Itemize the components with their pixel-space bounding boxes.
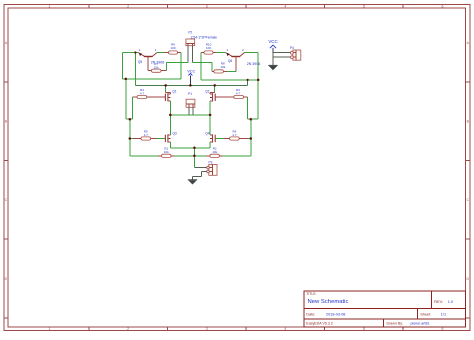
svg-text:3: 3 xyxy=(206,4,208,8)
svg-text:EasyEDA V5.3.2: EasyEDA V5.3.2 xyxy=(306,322,333,326)
resistor R9 xyxy=(165,51,182,54)
wire VCC to ground stub vertical xyxy=(272,53,274,65)
wire R8 to Q6 base xyxy=(227,70,236,72)
wire collector line horizontal left xyxy=(123,78,181,80)
svg-text:4: 4 xyxy=(284,4,286,8)
frame row letters right xyxy=(466,41,469,281)
wire motor node horizontal xyxy=(170,114,210,116)
wire R9 riser down xyxy=(180,53,182,79)
frame tick marks top xyxy=(89,5,403,8)
wire Q5 collector to R9 xyxy=(157,52,165,54)
resistor R7 xyxy=(148,69,167,72)
svg-text:Q2: Q2 xyxy=(205,89,209,93)
wire right lower rail xyxy=(250,119,252,156)
resistor R8 xyxy=(212,70,227,73)
connector P4 xyxy=(291,50,301,60)
svg-text:1/1: 1/1 xyxy=(441,312,446,316)
junction dot bus VCC xyxy=(189,84,192,87)
wire ground drop vertical xyxy=(193,148,195,168)
wire P3 pin2 horizontal xyxy=(202,171,207,173)
frame tick marks right xyxy=(466,82,470,318)
svg-text:4.7: 4.7 xyxy=(232,133,237,137)
svg-text:10k: 10k xyxy=(220,65,225,69)
transistor Q1 MOSFET xyxy=(165,85,170,115)
wire P3 pin2 vertical xyxy=(201,172,203,177)
title block row line 2 xyxy=(304,318,465,320)
wire to P3 pin1 xyxy=(194,167,206,169)
junction dot motor node left xyxy=(169,114,172,117)
svg-text:VCC: VCC xyxy=(187,69,195,74)
frame column numbers bottom xyxy=(49,327,444,331)
junction dot bus Q1 xyxy=(164,84,167,87)
transistor Q5 2N3906 xyxy=(138,53,157,71)
junction dot left rail collector line xyxy=(125,78,128,81)
resistor R1 xyxy=(158,154,174,157)
wire R4 riser xyxy=(132,97,134,119)
resistor R4 xyxy=(133,95,165,98)
svg-text:100: 100 xyxy=(170,46,175,50)
frame column numbers top xyxy=(49,4,444,8)
svg-text:P2: P2 xyxy=(188,31,192,35)
svg-text:Sheet:: Sheet: xyxy=(420,312,431,316)
svg-text:Q1: Q1 xyxy=(172,89,176,93)
svg-text:Q5: Q5 xyxy=(138,60,142,64)
wire VCC bus horizontal xyxy=(135,84,247,86)
svg-text:10k: 10k xyxy=(154,65,159,69)
wire R3 riser xyxy=(246,97,248,119)
svg-text:Date:: Date: xyxy=(306,312,315,316)
svg-text:P3: P3 xyxy=(208,160,212,164)
svg-text:2: 2 xyxy=(127,4,129,8)
wire P2 pin2 xyxy=(191,46,193,63)
wire R10 to Q6 xyxy=(217,52,226,54)
svg-text:3: 3 xyxy=(206,327,208,331)
ground symbol top right xyxy=(268,65,277,70)
power flag VCC center xyxy=(187,69,195,86)
wire source node horizontal xyxy=(170,147,210,149)
title block row line 1 xyxy=(304,307,465,309)
svg-text:4.7: 4.7 xyxy=(140,91,145,95)
svg-text:1: 1 xyxy=(49,4,51,8)
svg-text:100: 100 xyxy=(206,46,211,50)
transistor Q2 MOSFET xyxy=(210,85,215,115)
wire R7 riser xyxy=(166,63,168,71)
transistor Q4 MOSFET xyxy=(210,115,215,148)
svg-text:6: 6 xyxy=(442,4,444,8)
wire left lower rail xyxy=(129,119,131,156)
svg-text:TITLE:: TITLE: xyxy=(306,292,316,296)
svg-text:REV:: REV: xyxy=(434,300,443,304)
wire left jog horizontal xyxy=(126,118,133,120)
junction dot motor node right xyxy=(209,114,212,117)
connector P2 xyxy=(186,39,195,46)
wire Q5 emitter riser to VCC bus xyxy=(134,53,136,86)
svg-text:6: 6 xyxy=(442,327,444,331)
junction dot R1 R2 line xyxy=(193,155,196,158)
wire R2 to right rail xyxy=(223,155,251,157)
wire to ground horizontal xyxy=(193,176,202,178)
svg-text:2.54-1*2PFemale: 2.54-1*2PFemale xyxy=(191,36,218,40)
title block outline xyxy=(304,291,465,327)
svg-text:VCC: VCC xyxy=(268,39,277,44)
frame row letters left xyxy=(5,41,8,281)
svg-text:10k: 10k xyxy=(212,150,217,154)
svg-text:2: 2 xyxy=(127,327,129,331)
frame tick marks left xyxy=(4,82,8,318)
wire Q5 emitter horizontal xyxy=(123,52,138,54)
svg-text:Q4: Q4 xyxy=(205,131,209,135)
wire left rail lower vertical xyxy=(125,79,127,119)
wire ground stub xyxy=(192,177,194,180)
wire VCC horizontal right xyxy=(201,79,258,81)
svg-text:4.7: 4.7 xyxy=(144,133,149,137)
wire R8 riser xyxy=(211,63,213,72)
svg-text:Q3: Q3 xyxy=(172,131,176,135)
ground symbol bottom xyxy=(188,180,197,185)
svg-text:1: 1 xyxy=(49,327,51,331)
wire P2 pin1 xyxy=(187,46,189,63)
junction dot Q5 emitter wire xyxy=(134,51,136,53)
wire P2 pin1 to R7 xyxy=(167,62,188,64)
wire P1 pin1 xyxy=(188,107,190,115)
resistor R2 xyxy=(207,154,223,157)
title block DrawnBy separator xyxy=(383,319,385,327)
junction dot R5 tap xyxy=(129,137,132,140)
svg-text:Drawn By:: Drawn By: xyxy=(387,322,404,326)
connector P1 xyxy=(186,99,195,107)
wire R1 to R2 xyxy=(174,155,206,157)
transistor Q6 2N3906 xyxy=(226,53,245,72)
svg-text:1.0: 1.0 xyxy=(448,300,453,304)
wire to P4 pin2 xyxy=(273,56,291,58)
svg-text:P1: P1 xyxy=(188,92,192,96)
transistor Q3 MOSFET xyxy=(165,115,170,148)
resistor R6 xyxy=(215,137,250,140)
wire left rail to R1 xyxy=(130,155,158,157)
wire R10 riser down xyxy=(200,53,202,80)
svg-text:Q6: Q6 xyxy=(228,59,232,63)
title block Sheet separator xyxy=(417,308,419,319)
wire left rail upper vertical xyxy=(122,53,124,79)
junction dot bus right riser xyxy=(247,79,249,81)
wire to P4 pin1 xyxy=(273,52,291,54)
svg-text:5: 5 xyxy=(363,327,365,331)
wire P1 pin2 xyxy=(192,107,194,115)
svg-text:P4: P4 xyxy=(290,46,294,50)
wire P2 pin2 to R8 xyxy=(192,62,212,64)
junction dot source node xyxy=(193,147,196,150)
wire VCC bus right riser xyxy=(247,80,249,86)
svg-text:New Schematic: New Schematic xyxy=(308,299,349,305)
svg-text:2018-03-08: 2018-03-08 xyxy=(326,312,345,316)
svg-text:4: 4 xyxy=(284,327,286,331)
connector P3 xyxy=(207,164,217,175)
junction dot right rail VCC xyxy=(257,79,260,82)
resistor R3 xyxy=(215,95,247,98)
junction dot right jog xyxy=(250,118,253,121)
junction dot bus Q2 xyxy=(213,84,216,87)
svg-text:pioner.art81: pioner.art81 xyxy=(411,322,430,326)
resistor R10 xyxy=(201,51,217,54)
svg-text:4.7: 4.7 xyxy=(236,91,241,95)
svg-text:10k: 10k xyxy=(164,150,169,154)
resistor R5 xyxy=(130,137,165,140)
title block REV separator xyxy=(430,291,432,308)
frame tick marks bottom xyxy=(89,327,403,330)
wire Q6 collector to right rail xyxy=(245,52,259,54)
power flag VCC top right xyxy=(268,39,277,53)
junction dot R6 tap xyxy=(250,137,253,140)
svg-text:5: 5 xyxy=(363,4,365,8)
junction dot left jog xyxy=(129,118,132,121)
wire right rail vertical xyxy=(257,53,259,120)
wire right jog horizontal xyxy=(247,118,258,120)
